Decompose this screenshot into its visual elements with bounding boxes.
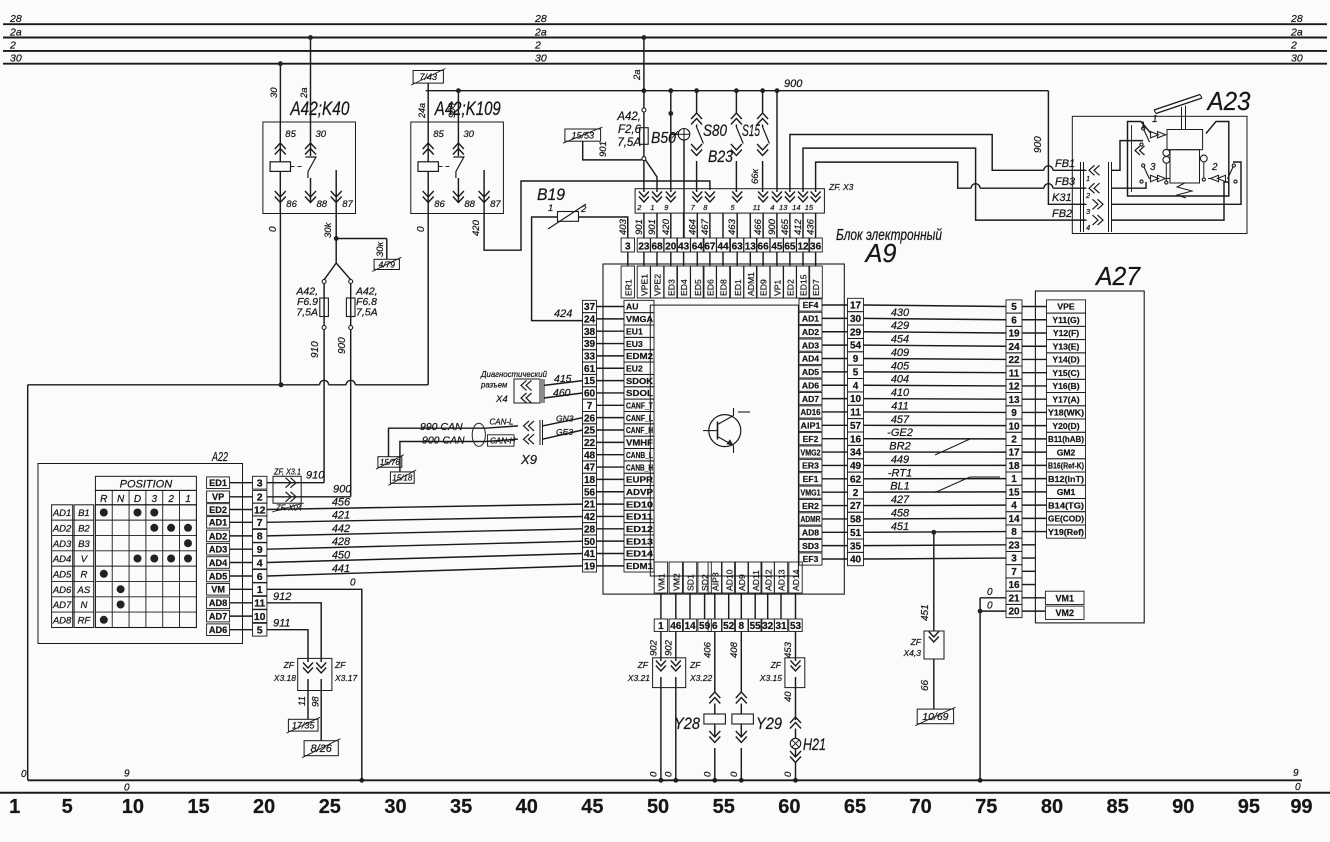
- svg-text:1: 1: [185, 494, 191, 505]
- svg-text:ED2: ED2: [786, 279, 796, 296]
- connector ZF X3 pin 1: [652, 192, 662, 198]
- A27 pin 14: [1006, 512, 1022, 525]
- wire 0 from A27 VM2: [980, 610, 1006, 612]
- svg-text:Y15(C): Y15(C): [1052, 368, 1079, 378]
- svg-text:AD1: AD1: [209, 518, 227, 528]
- connector ZF X3.18 / X3.17 box: [298, 658, 332, 690]
- svg-text:912: 912: [273, 591, 291, 603]
- svg-text:900: 900: [337, 337, 348, 354]
- bus line 2: [3, 50, 1327, 52]
- svg-text:0: 0: [664, 771, 675, 777]
- wire 415 X4 to SDOK: [544, 381, 583, 386]
- svg-text:ADMR: ADMR: [801, 514, 822, 524]
- svg-text:57: 57: [850, 421, 862, 432]
- svg-text:SD1: SD1: [686, 574, 696, 591]
- svg-text:2: 2: [534, 40, 541, 52]
- A9 right pin 58 ADMR: [799, 513, 822, 525]
- wire FB1: [790, 135, 1044, 193]
- connector X9: [486, 426, 519, 428]
- svg-text:8/26: 8/26: [310, 743, 332, 755]
- svg-text:7: 7: [587, 401, 593, 412]
- svg-text:4: 4: [853, 381, 859, 392]
- A23 detent circles: [1163, 149, 1170, 156]
- svg-text:44: 44: [717, 242, 729, 253]
- svg-text:AIP1: AIP1: [801, 421, 821, 431]
- wire 421 A22 to A9: [267, 517, 583, 523]
- svg-text:7,5A: 7,5A: [296, 307, 318, 319]
- svg-text:9: 9: [1293, 768, 1299, 779]
- relay K109 contact wire pin88: [457, 178, 459, 203]
- svg-text:6: 6: [257, 571, 263, 583]
- svg-text:SDOL: SDOL: [626, 388, 653, 398]
- svg-text:GN3: GN3: [556, 414, 574, 424]
- svg-text:VP1: VP1: [773, 280, 783, 296]
- svg-text:A42;K109: A42;K109: [434, 99, 501, 120]
- svg-text:11: 11: [254, 598, 265, 610]
- A9 right pin 35 SD3: [799, 540, 822, 552]
- svg-text:Y29: Y29: [756, 714, 782, 733]
- svg-text:454: 454: [891, 334, 909, 346]
- svg-text:20: 20: [665, 242, 677, 253]
- svg-text:10: 10: [254, 611, 266, 623]
- svg-text:1: 1: [1152, 114, 1158, 125]
- svg-text:429: 429: [891, 320, 909, 332]
- wire 40 to lamp H21: [795, 677, 797, 720]
- A9 top pin 12 ED15: [796, 238, 809, 252]
- svg-text:50: 50: [584, 537, 596, 548]
- A9 right pin 34 VMG2: [799, 446, 822, 458]
- wire 2a drop to fuse F2.6: [643, 38, 645, 109]
- svg-text:98: 98: [311, 696, 322, 707]
- wire 910 from fuse F6.9: [323, 330, 325, 483]
- svg-text:28: 28: [1290, 13, 1303, 25]
- svg-text:28: 28: [9, 13, 22, 25]
- svg-text:ADM1: ADM1: [746, 272, 756, 296]
- wire A9 pin 11 to A27 pin 9: [864, 411, 1007, 413]
- svg-text:0: 0: [350, 578, 356, 589]
- svg-text:466: 466: [753, 218, 764, 235]
- svg-text:VPE2: VPE2: [653, 274, 663, 296]
- A9 right pin 17 EF4: [799, 299, 822, 311]
- svg-text:FB3: FB3: [1055, 176, 1076, 188]
- svg-text:23: 23: [638, 242, 650, 253]
- A22 pin 8 AD2: [207, 530, 230, 542]
- wire A9 pin 30 to A27 pin 6: [864, 318, 1007, 319]
- A22 pin 2 VP: [207, 491, 230, 503]
- wire B50 to pin 43: [683, 140, 685, 238]
- wire K40 pin87 down 30k: [335, 214, 337, 264]
- svg-text:ZF, X3.1: ZF, X3.1: [273, 467, 301, 477]
- A27 pin 5: [1006, 300, 1022, 313]
- svg-text:20: 20: [253, 796, 275, 818]
- A22 pin 4 AD4: [207, 557, 230, 569]
- switch S80: [696, 91, 698, 113]
- svg-text:B11(hAB): B11(hAB): [1048, 434, 1084, 444]
- svg-text:42: 42: [584, 512, 596, 523]
- wire 66 to ref 10/69: [933, 659, 935, 709]
- svg-text:65: 65: [784, 242, 796, 253]
- svg-text:3: 3: [152, 494, 158, 505]
- svg-text:12: 12: [254, 504, 266, 516]
- svg-text:4/79: 4/79: [378, 259, 395, 269]
- svg-text:X3.15: X3.15: [759, 673, 782, 683]
- svg-text:910: 910: [306, 470, 325, 482]
- svg-text:VM2: VM2: [671, 573, 681, 591]
- svg-text:39: 39: [584, 339, 596, 350]
- 0-net distribution line upper: [28, 384, 320, 386]
- svg-text:20: 20: [1008, 607, 1020, 618]
- svg-text:AD2: AD2: [802, 327, 819, 337]
- svg-text:2: 2: [167, 494, 174, 505]
- svg-text:2a: 2a: [632, 69, 643, 81]
- svg-text:28: 28: [534, 13, 547, 25]
- svg-text:Диагностический: Диагностический: [480, 370, 548, 379]
- svg-text:Y20(D): Y20(D): [1052, 421, 1079, 431]
- svg-text:GM1: GM1: [1057, 487, 1076, 497]
- A9 top pin 44 ED8: [716, 238, 729, 252]
- svg-text:ZF. X3: ZF. X3: [828, 182, 854, 192]
- svg-text:7,5A: 7,5A: [617, 137, 641, 149]
- svg-text:N: N: [80, 600, 87, 611]
- svg-text:901: 901: [634, 219, 645, 235]
- svg-text:X3.17: X3.17: [334, 673, 357, 683]
- A9 bottom pin 59 SD2: [698, 562, 711, 593]
- A22 pin 6 AD5: [207, 570, 230, 582]
- svg-text:Y13(E): Y13(E): [1053, 341, 1080, 351]
- svg-text:15: 15: [584, 376, 596, 387]
- wire B19 pin2 to A9 pin3: [579, 217, 628, 238]
- svg-text:56: 56: [584, 487, 596, 498]
- svg-text:Y11(G): Y11(G): [1052, 315, 1079, 325]
- svg-text:VMG2: VMG2: [801, 447, 821, 457]
- svg-text:VPE: VPE: [1057, 302, 1074, 312]
- A9 left pin 21 ED10: [583, 498, 597, 510]
- connector ZF X3 pin 7: [692, 192, 702, 198]
- wire K109 pin86 to 0-net: [427, 214, 429, 385]
- svg-text:Y19(Ref): Y19(Ref): [1048, 527, 1084, 537]
- svg-text:BR2: BR2: [889, 441, 910, 453]
- svg-text:12: 12: [797, 242, 809, 253]
- svg-text:12: 12: [1008, 382, 1020, 393]
- svg-text:X3.21: X3.21: [627, 673, 650, 683]
- A9 left pin 28 ED12: [583, 523, 597, 535]
- connector ZF X3 pin 15: [811, 192, 821, 198]
- svg-text:18: 18: [584, 475, 596, 486]
- A9 top pin 13 ADM1: [744, 238, 757, 252]
- svg-text:901: 901: [647, 219, 658, 235]
- svg-text:50: 50: [647, 796, 669, 818]
- A23 wire switch1 internal: [1142, 122, 1144, 129]
- svg-text:EU2: EU2: [626, 363, 643, 373]
- svg-text:7: 7: [257, 517, 263, 529]
- svg-text:424: 424: [554, 308, 572, 320]
- svg-text:GE3: GE3: [556, 427, 573, 437]
- A9 right pin 27 ER2: [799, 499, 822, 511]
- svg-text:22: 22: [1008, 355, 1020, 366]
- svg-text:35: 35: [450, 796, 472, 818]
- wire A9 pin 51 to A27 pin 8: [864, 531, 1007, 534]
- wire 456 A22 to A9: [267, 504, 583, 509]
- svg-text:86: 86: [434, 199, 445, 210]
- A27 pin 9: [1006, 406, 1022, 419]
- svg-text:0: 0: [783, 771, 794, 777]
- svg-text:ER3: ER3: [802, 461, 819, 471]
- relay K40 coil wire pin86: [279, 171, 281, 213]
- svg-text:2: 2: [853, 488, 859, 499]
- connector ZF X3 pin 5: [732, 192, 742, 198]
- A27 pin 11: [1006, 366, 1022, 379]
- relay K40 contact wire pin87: [335, 170, 337, 214]
- svg-text:Y12(F): Y12(F): [1053, 328, 1079, 338]
- wire 912 from A22 AD8: [267, 603, 321, 662]
- svg-text:VM: VM: [211, 585, 225, 595]
- svg-text:66: 66: [758, 242, 770, 253]
- A27 pin 19: [1006, 326, 1022, 339]
- A22 pin 5 AD6: [207, 624, 230, 636]
- A22 pin 3 ED1: [207, 477, 230, 489]
- connector ZF X3.17 pin: [316, 663, 326, 669]
- A23 wire FB2 internal: [1112, 182, 1229, 220]
- A27 pin 12: [1006, 379, 1022, 392]
- svg-text:2a: 2a: [1290, 26, 1303, 38]
- A9 left pin 38 EU1: [583, 325, 597, 337]
- svg-text:0: 0: [987, 587, 993, 598]
- A9 right pin 16 EF2: [799, 433, 822, 445]
- svg-text:48: 48: [584, 450, 596, 461]
- svg-text:0: 0: [416, 226, 427, 232]
- svg-text:404: 404: [891, 374, 909, 386]
- svg-text:0: 0: [987, 601, 993, 612]
- svg-text:X4: X4: [495, 394, 508, 405]
- svg-text:19: 19: [584, 561, 596, 572]
- svg-text:451: 451: [891, 521, 909, 533]
- fuse A42 F6.8 7.5A: [349, 280, 353, 284]
- svg-text:63: 63: [732, 242, 744, 253]
- wire FB3: [816, 162, 972, 192]
- svg-text:2a: 2a: [299, 87, 310, 99]
- A9 top pin 36 ED7: [809, 238, 822, 252]
- svg-text:SD3: SD3: [802, 541, 819, 551]
- svg-text:AD3: AD3: [802, 340, 819, 350]
- A9 right pin 2 VMG1: [799, 486, 822, 498]
- svg-text:41: 41: [584, 549, 596, 560]
- svg-text:Y17(A): Y17(A): [1052, 394, 1079, 404]
- svg-text:AD10: AD10: [724, 569, 734, 591]
- svg-text:GE(COD): GE(COD): [1048, 514, 1084, 524]
- svg-text:10/69: 10/69: [922, 711, 948, 723]
- svg-text:55: 55: [750, 621, 762, 632]
- svg-text:AD14: AD14: [791, 569, 801, 591]
- svg-text:87: 87: [490, 199, 501, 210]
- lamp H21: [790, 717, 801, 723]
- svg-text:AD5: AD5: [209, 571, 227, 581]
- svg-text:11: 11: [753, 203, 761, 212]
- A9 bottom pin 31 AD13: [774, 562, 787, 593]
- svg-text:54: 54: [850, 341, 862, 352]
- connector ZF X3.15: [785, 658, 805, 688]
- svg-text:34: 34: [850, 448, 862, 459]
- svg-text:EDM2: EDM2: [626, 351, 653, 361]
- svg-text:А27: А27: [1094, 261, 1141, 291]
- svg-text:900: 900: [333, 484, 352, 496]
- svg-text:разъем: разъем: [480, 381, 508, 390]
- svg-text:29: 29: [850, 327, 862, 338]
- svg-text:CANF_T: CANF_T: [626, 401, 654, 411]
- svg-text:453: 453: [783, 641, 794, 658]
- svg-text:AD2: AD2: [52, 523, 72, 534]
- A9 bottom pin 8 AD9: [735, 562, 748, 593]
- svg-text:412: 412: [793, 218, 804, 235]
- ruler line: [0, 792, 1330, 794]
- wire 453 from A9 pin53: [795, 632, 797, 662]
- connector ZF X3.1 pin chevron ED1: [291, 478, 297, 488]
- svg-text:465: 465: [780, 218, 791, 235]
- svg-text:-RT1: -RT1: [888, 467, 912, 479]
- svg-text:VPE1: VPE1: [640, 274, 650, 296]
- A27 pin 6: [1006, 313, 1022, 326]
- svg-text:900: 900: [447, 103, 457, 118]
- A23 left connector rails: [1080, 162, 1082, 232]
- svg-text:5: 5: [1011, 302, 1017, 313]
- svg-text:0: 0: [729, 771, 740, 777]
- A9 bottom pin 6 AIP3: [708, 562, 721, 593]
- A9 top pin 65 ED2: [783, 238, 796, 252]
- svg-text:25: 25: [584, 426, 596, 437]
- svg-text:1: 1: [9, 796, 20, 818]
- A9 left pin 47 CANB_H: [583, 461, 597, 473]
- svg-text:-GE2: -GE2: [887, 427, 913, 439]
- svg-text:901: 901: [598, 141, 609, 157]
- svg-text:RF: RF: [78, 615, 92, 626]
- A9 top pin 63 ED1: [731, 238, 744, 252]
- svg-text:458: 458: [891, 507, 910, 519]
- svg-text:15: 15: [1008, 487, 1020, 498]
- svg-text:AD11: AD11: [751, 570, 761, 591]
- A23 connector pin 2 FB3: [1089, 183, 1095, 193]
- svg-text:ED4: ED4: [679, 279, 689, 296]
- svg-text:49: 49: [850, 461, 862, 472]
- svg-text:36: 36: [810, 242, 822, 253]
- svg-text:46: 46: [670, 621, 682, 632]
- wire 451 down: [933, 532, 935, 631]
- wire 911 from A22 AD6: [267, 630, 308, 662]
- svg-text:61: 61: [584, 364, 596, 375]
- A9 top pin 45 VP1: [770, 238, 783, 252]
- svg-text:VM2: VM2: [1055, 608, 1074, 618]
- svg-text:AD6: AD6: [209, 625, 227, 635]
- svg-text:5: 5: [257, 625, 263, 637]
- svg-text:ER1: ER1: [623, 279, 633, 296]
- position table dots: [100, 509, 108, 517]
- A9 left pin 24 VMGA: [583, 313, 597, 325]
- svg-text:1: 1: [650, 203, 654, 212]
- connector ZF X3 pin 13: [785, 192, 795, 198]
- svg-text:CANB_H: CANB_H: [626, 462, 653, 472]
- svg-text:CAN-L: CAN-L: [490, 418, 514, 427]
- svg-text:ZF: ZF: [689, 660, 701, 670]
- svg-text:AD8: AD8: [52, 615, 72, 626]
- svg-text:90: 90: [1172, 796, 1194, 818]
- svg-text:0: 0: [21, 769, 27, 780]
- A9 right pin 54 AD3: [799, 339, 822, 351]
- A27 pin 22: [1006, 353, 1022, 366]
- ref box 8/26: [304, 741, 338, 756]
- svg-text:AD5: AD5: [52, 569, 72, 580]
- svg-text:30: 30: [1291, 53, 1303, 65]
- A22 pin 12 ED2: [207, 504, 230, 516]
- A27 pin 15: [1006, 485, 1022, 498]
- svg-text:30k: 30k: [323, 221, 334, 238]
- svg-text:430: 430: [891, 307, 910, 319]
- svg-text:2: 2: [636, 203, 642, 212]
- svg-text:VMHF: VMHF: [626, 438, 653, 448]
- A27 pin 2: [1006, 432, 1022, 445]
- A22 pin 1 VM: [207, 584, 230, 596]
- svg-text:408: 408: [729, 641, 740, 658]
- A23 inner chevron: [1135, 146, 1140, 155]
- svg-text:13: 13: [1008, 395, 1020, 406]
- wires 902 from A9 pins 1,46: [660, 632, 662, 662]
- svg-text:R: R: [80, 569, 87, 580]
- svg-text:Y28: Y28: [674, 714, 700, 733]
- svg-text:95: 95: [1238, 796, 1260, 818]
- svg-text:AD8: AD8: [209, 598, 227, 608]
- svg-text:AD3: AD3: [52, 539, 72, 550]
- A23 connector pin 3 K31: [1098, 199, 1104, 209]
- svg-text:30: 30: [316, 129, 327, 140]
- svg-text:ER2: ER2: [802, 501, 819, 511]
- svg-text:CANF_L: CANF_L: [626, 413, 653, 423]
- svg-text:X9: X9: [520, 452, 537, 467]
- ECU A9 inner box: [650, 305, 798, 576]
- wire A9 pin 40 to A27 pin 3: [864, 557, 1007, 560]
- A27 pin 8: [1006, 525, 1022, 538]
- svg-text:ZF: ZF: [910, 637, 922, 647]
- svg-text:AU: AU: [626, 302, 638, 312]
- svg-text:ED2: ED2: [209, 505, 227, 515]
- A9 top pin 67 ED6: [703, 238, 716, 252]
- ground line 0: [28, 779, 1302, 781]
- wire A9 pin 62 to A27 pin 1: [864, 478, 1007, 480]
- wire from 900 to ZF X3 pin9: [670, 91, 672, 192]
- svg-text:467: 467: [700, 218, 711, 235]
- svg-text:Y16(B): Y16(B): [1052, 381, 1079, 391]
- A27 pin VM2 box: [1045, 606, 1084, 619]
- svg-text:8: 8: [1011, 527, 1017, 538]
- svg-text:ED13: ED13: [626, 536, 653, 546]
- ECU A9 outer box: [603, 264, 844, 594]
- svg-text:ED8: ED8: [719, 279, 729, 296]
- svg-text:B16(Ref-K): B16(Ref-K): [1048, 461, 1084, 471]
- svg-text:403: 403: [618, 218, 629, 235]
- svg-text:EF2: EF2: [803, 434, 819, 444]
- svg-text:16: 16: [850, 434, 862, 445]
- bus line 28: [3, 23, 1327, 25]
- svg-text:30: 30: [10, 53, 22, 65]
- A9 left pin 19 EDM1: [583, 560, 597, 572]
- svg-text:7,5A: 7,5A: [356, 307, 378, 319]
- svg-text:VM1: VM1: [1055, 593, 1074, 603]
- svg-text:17: 17: [1008, 448, 1020, 459]
- svg-text:53: 53: [790, 621, 802, 632]
- svg-text:26: 26: [584, 413, 596, 424]
- svg-text:30к: 30к: [375, 241, 386, 257]
- wire K109 pin30 from 900 net: [457, 91, 459, 122]
- A23 mechanism outline: [1128, 122, 1229, 197]
- svg-text:ED6: ED6: [706, 279, 716, 296]
- svg-text:80: 80: [1041, 796, 1063, 818]
- svg-text:902: 902: [649, 639, 660, 656]
